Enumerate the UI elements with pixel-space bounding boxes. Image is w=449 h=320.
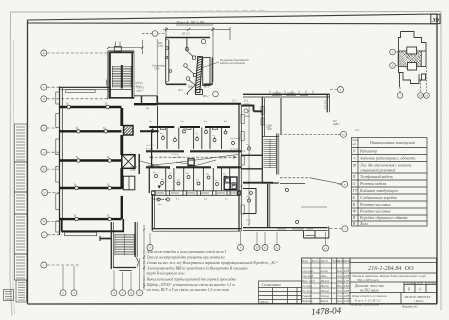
svg-text:поз.2700: поз.2700 bbox=[172, 156, 182, 159]
svg-text:4.83: 4.83 bbox=[344, 289, 350, 293]
north wall bbox=[243, 94, 330, 97]
svg-text:Попов: Попов bbox=[320, 289, 330, 293]
axis circle top left of узел bbox=[142, 31, 166, 37]
svg-text:Согл.энс: Согл.энс bbox=[302, 269, 314, 273]
svg-text:тип: тип bbox=[245, 115, 250, 118]
frame right vertical bbox=[436, 14, 438, 304]
corridor top wall bbox=[146, 150, 241, 152]
refuse chute dark box bbox=[124, 126, 134, 136]
corridor bottom wall bbox=[146, 166, 241, 168]
svg-text:Наименование помещений: Наименование помещений bbox=[369, 140, 415, 145]
svg-text:Гип отд: Гип отд bbox=[301, 274, 314, 278]
svg-text:4. Электропроводку ВВГнг прово: 4. Электропроводку ВВГнг проводится 1к В… bbox=[143, 267, 248, 271]
east wall central double bbox=[239, 105, 241, 232]
window boxes on west wall bbox=[261, 106, 264, 125]
lamp circles left block bbox=[67, 105, 111, 221]
svg-text:зал: зал bbox=[157, 203, 161, 206]
treads bbox=[115, 234, 134, 255]
stair dim line top bbox=[107, 40, 144, 54]
small room bottom-left of right wing bbox=[243, 189, 256, 214]
paper edge shadow left2 bbox=[13, 40, 15, 314]
svg-text:Листов: Листов bbox=[427, 282, 438, 285]
svg-text:Лист: Лист bbox=[320, 259, 329, 263]
bottom-center big room bbox=[152, 194, 241, 231]
window on stair left wall bbox=[106, 80, 108, 86]
key plan boxes bbox=[407, 47, 417, 54]
vertical dim line right of staircase bbox=[143, 225, 146, 290]
misc tiny dimension texts bbox=[129, 82, 360, 201]
frame tilted top line bbox=[28, 14, 438, 20]
axis circle right of узел bottom bbox=[213, 91, 219, 97]
svg-text:(н днее): (н днее) bbox=[230, 148, 238, 151]
SE corner porch bbox=[304, 227, 329, 239]
svg-text:80.1: 80.1 bbox=[204, 86, 209, 89]
svg-text:Коробка обратного обвязки: Коробка обратного обвязки bbox=[359, 215, 408, 220]
north wall of left block bbox=[60, 87, 111, 89]
svg-text:6: 6 bbox=[420, 288, 422, 292]
svg-text:4.83: 4.83 bbox=[344, 279, 350, 283]
svg-text:Антенна радиотрансл. абонент.: Антенна радиотрансл. абонент. bbox=[359, 156, 416, 161]
svg-text:ж: ж bbox=[42, 51, 45, 55]
top-left staircase bbox=[107, 40, 145, 99]
узел A dim line top bbox=[163, 27, 230, 82]
vent triangle bbox=[158, 186, 162, 189]
svg-text:Игн: Игн bbox=[336, 269, 343, 273]
legend table bbox=[352, 138, 428, 227]
svg-text:6м: 6м bbox=[186, 172, 189, 175]
paper edge shadow left bbox=[10, 12, 12, 316]
svg-text:Розетка кабеля: Розетка кабеля bbox=[359, 181, 386, 186]
stair treads bbox=[112, 66, 131, 87]
san unit shaft in corridor bbox=[188, 159, 194, 166]
svg-text:5м: 5м bbox=[196, 179, 199, 182]
svg-text:10: 10 bbox=[256, 246, 260, 250]
svg-text:Соединенные коробки: Соединенные коробки bbox=[360, 195, 397, 200]
svg-text:Жзн: Жзн bbox=[336, 279, 343, 283]
svg-text:Агеев: Агеев bbox=[320, 269, 329, 273]
svg-text:Телефонный кабель: Телефонный кабель bbox=[360, 174, 393, 179]
closet slab rect top room bbox=[66, 90, 96, 93]
west wall double bbox=[60, 87, 63, 236]
svg-text:стыковкой розеткой: стыковкой розеткой bbox=[360, 168, 395, 173]
svg-text:ГИП А.: ГИП А. bbox=[259, 300, 270, 304]
svg-text:15.1: 15.1 bbox=[355, 129, 360, 132]
fixtures top row rooms bbox=[151, 128, 235, 145]
south wall windows right wing bbox=[277, 228, 313, 230]
svg-text:А 8 п.м.: А 8 п.м. bbox=[217, 157, 226, 160]
wall y111 connector bbox=[242, 106, 263, 112]
узел A fixtures bbox=[184, 39, 206, 85]
interior wall y131 bbox=[59, 130, 122, 132]
узел A riser hatched bar bbox=[195, 56, 202, 92]
svg-text:2. Трассы электропроводки разм: 2. Трассы электропроводки размыты при мо… bbox=[143, 256, 226, 260]
svg-text:лог 7: лог 7 bbox=[135, 85, 142, 88]
svg-text:Дипломн. жил.-зав: Дипломн. жил.-зав bbox=[354, 284, 384, 288]
svg-text:2.06: 2.06 bbox=[266, 126, 271, 129]
wall x268 vertical bbox=[268, 184, 270, 228]
interior wall y219 bbox=[59, 218, 122, 220]
wall C rooms top row bottom (y127) bbox=[140, 127, 230, 168]
svg-text:Холл: Холл bbox=[359, 221, 368, 226]
svg-text:Носов: Носов bbox=[320, 284, 330, 288]
key plan hatch bbox=[399, 51, 422, 71]
svg-text:Обоз: Обоз bbox=[352, 139, 357, 142]
svg-text:2700: 2700 bbox=[130, 169, 136, 172]
узел A cable curve bbox=[187, 84, 196, 95]
central block bbox=[122, 96, 251, 232]
east wall of left block (dark segments) bbox=[120, 108, 123, 219]
узел A detail walls bbox=[165, 37, 213, 85]
bay line south room bbox=[301, 206, 327, 208]
узел A callout texts bbox=[152, 42, 249, 98]
svg-text:1. Дом мест отведен и силы ука: 1. Дом мест отведен и силы указанных сет… bbox=[143, 249, 226, 254]
west wall window rects bbox=[56, 92, 60, 232]
soglasovano table bbox=[259, 281, 302, 304]
svg-text:ВУ 2,5: ВУ 2,5 bbox=[182, 33, 190, 36]
svg-text:8-2,5 д: 8-2,5 д bbox=[146, 148, 154, 151]
notes text block bbox=[143, 249, 278, 293]
svg-text:Разраб: Разраб bbox=[301, 294, 312, 298]
elevator shaft bbox=[122, 155, 135, 169]
svg-text:13: 13 bbox=[324, 246, 328, 250]
svg-text:Розетка числовые: Розетка числовые bbox=[359, 209, 391, 214]
svg-text:5м: 5м bbox=[177, 179, 180, 182]
dim extension line x157 bbox=[156, 39, 158, 97]
svg-text:Тгн: Тгн bbox=[337, 294, 342, 298]
svg-text:4.83: 4.83 bbox=[344, 284, 350, 288]
corridor wiring dashed arrows bbox=[140, 155, 238, 170]
svg-text:лот 7: лот 7 bbox=[136, 90, 144, 93]
svg-text:36 А: 36 А bbox=[240, 150, 245, 153]
svg-text:О: О bbox=[353, 181, 356, 186]
bottom room dark walls bbox=[62, 219, 125, 232]
staircase vestibule walls bbox=[134, 96, 158, 106]
svg-text:1б: 1б bbox=[419, 94, 423, 98]
svg-text:Розетка числовые: Розетка числовые bbox=[359, 202, 391, 207]
svg-text:Лист: Лист bbox=[416, 282, 424, 285]
svg-text:17.0: 17.0 bbox=[246, 219, 251, 222]
svg-text:4.83: 4.83 bbox=[344, 299, 350, 303]
svg-text:Кабинет заведующего: Кабинет заведующего bbox=[359, 188, 398, 193]
svg-text:Р: Р bbox=[352, 149, 356, 154]
svg-text:Нач. отд: Нач. отд bbox=[301, 279, 315, 283]
узел A wall symbols bbox=[165, 47, 172, 73]
svg-text:5м: 5м bbox=[153, 171, 156, 174]
svg-text:трубе В негорючем поле: трубе В негорючем поле bbox=[147, 272, 186, 276]
svg-text:12: 12 bbox=[276, 246, 280, 250]
lobby wall bbox=[138, 154, 140, 174]
top wall central bbox=[157, 103, 241, 105]
fixtures right wing bbox=[247, 145, 298, 224]
south facade wall central (double with windows) bbox=[152, 191, 241, 196]
svg-text:Гл.спец: Гл.спец bbox=[301, 284, 312, 288]
узел A inner shaft rect bbox=[203, 57, 210, 85]
right wing staircase bbox=[262, 134, 279, 184]
title row2 text bbox=[352, 274, 426, 282]
bottom staircase bbox=[100, 222, 145, 290]
outer border top bbox=[11, 11, 442, 14]
svg-text:Жуков: Жуков bbox=[320, 279, 330, 283]
svg-text:(АВГ): (АВГ) bbox=[333, 123, 340, 126]
door leafs on wall C bbox=[161, 128, 218, 130]
svg-text:8.1: 8.1 bbox=[176, 198, 179, 201]
svg-text:План сетей 2-го этажа: План сетей 2-го этажа bbox=[351, 293, 387, 298]
title block left grid bbox=[302, 258, 351, 304]
wall y182 across right wing bbox=[243, 182, 305, 185]
svg-text:Копировал Ведюшкина: Копировал Ведюшкина bbox=[349, 303, 380, 307]
узел A riser bottom box bbox=[196, 90, 203, 95]
svg-text:ВУ-1: ВУ-1 bbox=[203, 95, 209, 98]
svg-text:ЩК: ЩК bbox=[187, 86, 193, 89]
svg-text:4.83: 4.83 bbox=[344, 269, 350, 273]
title block bbox=[302, 258, 437, 304]
svg-text:Стадия: Стадия bbox=[405, 282, 415, 285]
svg-text:БЕЛГОСПРОЕКТ: БЕЛГОСПРОЕКТ bbox=[404, 295, 432, 299]
frame bottom bbox=[28, 303, 438, 305]
interior wall y160.5 bbox=[59, 159, 122, 161]
bottom row room dividers bbox=[149, 167, 229, 193]
svg-text:(авт): (авт) bbox=[244, 103, 250, 106]
svg-text:40.1: 40.1 bbox=[178, 89, 183, 92]
connector wall to left block bbox=[100, 238, 112, 240]
south wall right wing bbox=[243, 228, 328, 231]
svg-text:Лом..: Лом.. bbox=[320, 274, 328, 278]
left stamp strip bbox=[4, 124, 28, 302]
fixtures in big room bbox=[157, 198, 170, 201]
north wall windows bbox=[270, 91, 313, 96]
svg-text:г.Минск: г.Минск bbox=[414, 300, 424, 303]
room labels tiny bbox=[149, 120, 240, 182]
svg-text:ТУЭ: ТУЭ bbox=[154, 68, 159, 71]
svg-text:(авт): (авт) bbox=[232, 103, 238, 106]
NE corner wall bbox=[325, 94, 330, 112]
svg-text:на 582 шаги: на 582 шаги bbox=[360, 289, 379, 293]
svg-text:ЯГ.ЦВ: ЯГ.ЦВ bbox=[151, 198, 160, 201]
dim line between blocks bbox=[248, 106, 251, 226]
svg-text:Изм: Изм bbox=[301, 259, 308, 263]
faint top scan text bbox=[148, 11, 268, 12]
svg-text:582 и 283 шаги: 582 и 283 шаги bbox=[357, 278, 379, 282]
axis circles right bbox=[329, 87, 348, 232]
svg-text:ял. ж.: ял. ж. bbox=[159, 156, 167, 159]
svg-text:кабеля под потолком: кабеля под потолком bbox=[220, 62, 245, 65]
right wing bbox=[241, 91, 342, 239]
svg-text:Радиатор: Радиатор bbox=[359, 149, 377, 154]
svg-text:4.83: 4.83 bbox=[344, 274, 350, 278]
outer border right bbox=[440, 12, 442, 311]
svg-text:Дата: Дата bbox=[343, 259, 352, 263]
bathroom dark cluster right bbox=[224, 177, 237, 190]
frame second top line bbox=[28, 22, 438, 25]
svg-text:5. Вычислительной трубы щитово: 5. Вычислительной трубы щитовой для горя… bbox=[143, 277, 236, 282]
small rooms right of east wall bbox=[123, 176, 135, 190]
svg-text:1478-04: 1478-04 bbox=[311, 305, 342, 317]
interior wall y107 bbox=[59, 106, 122, 109]
svg-text:ТУЭ: ТУЭ bbox=[158, 45, 163, 48]
title row4 bbox=[351, 293, 432, 304]
svg-text:Кол.уч: Кол.уч bbox=[311, 259, 321, 263]
axis circles bottom y293 bbox=[60, 258, 143, 296]
axis circles bottom y247 bbox=[147, 232, 329, 251]
west wall of right wing bbox=[262, 97, 264, 137]
page number box 39 bbox=[431, 14, 440, 24]
svg-text:Формат А2: Формат А2 bbox=[402, 305, 418, 309]
title block tiny texts bbox=[301, 259, 351, 303]
room divider right wing top bbox=[280, 98, 282, 134]
vestibule bbox=[113, 258, 138, 271]
svg-text:216-1-284.84 ОО: 216-1-284.84 ОО bbox=[368, 265, 414, 272]
stair bottom landing wall bbox=[110, 89, 133, 91]
interior wall y188 bbox=[59, 187, 122, 189]
east wall window rects bbox=[241, 115, 244, 215]
svg-text:8м: 8м bbox=[206, 173, 209, 176]
vent box above stair bbox=[114, 47, 121, 52]
stair outer walls bbox=[108, 51, 134, 99]
svg-text:Бгн: Бгн bbox=[336, 299, 342, 303]
corridor bridge walls bbox=[242, 155, 263, 169]
fixtures bottom row rooms bbox=[155, 175, 236, 186]
svg-text:Пгн: Пгн bbox=[336, 289, 343, 293]
svg-text:Чертил: Чертил bbox=[302, 299, 313, 303]
corridor labels bbox=[145, 144, 238, 160]
axis circles left column bbox=[41, 50, 110, 268]
svg-text:Гл. инж: Гл. инж bbox=[301, 289, 313, 293]
courtyard texts bbox=[244, 100, 251, 119]
title row3 bbox=[354, 282, 437, 292]
svg-text:Белов: Белов bbox=[320, 299, 329, 303]
svg-text:(за дverь): (за дverь) bbox=[230, 137, 240, 140]
key plan axis circles bbox=[390, 49, 430, 98]
svg-text:Лгн: Лгн bbox=[336, 274, 342, 278]
balcony slab bottom bbox=[65, 232, 97, 235]
key plan bbox=[398, 32, 426, 88]
frame left vertical bbox=[27, 20, 29, 304]
svg-text:Согласовано: Согласовано bbox=[262, 283, 281, 287]
svg-text:4.83: 4.83 bbox=[344, 294, 350, 298]
svg-text:39: 39 bbox=[431, 17, 439, 24]
left block bbox=[56, 87, 135, 236]
top row room dividers bbox=[158, 106, 222, 149]
svg-text:Нгв: Нгв bbox=[336, 284, 343, 288]
wiring dash into right wing bbox=[243, 134, 342, 184]
svg-text:6м: 6м bbox=[161, 178, 164, 181]
svg-text:Узел А М 1:50: Узел А М 1:50 bbox=[176, 20, 205, 25]
svg-text:Титов: Титов bbox=[321, 294, 330, 298]
stair stringer dark bar bbox=[121, 65, 123, 89]
